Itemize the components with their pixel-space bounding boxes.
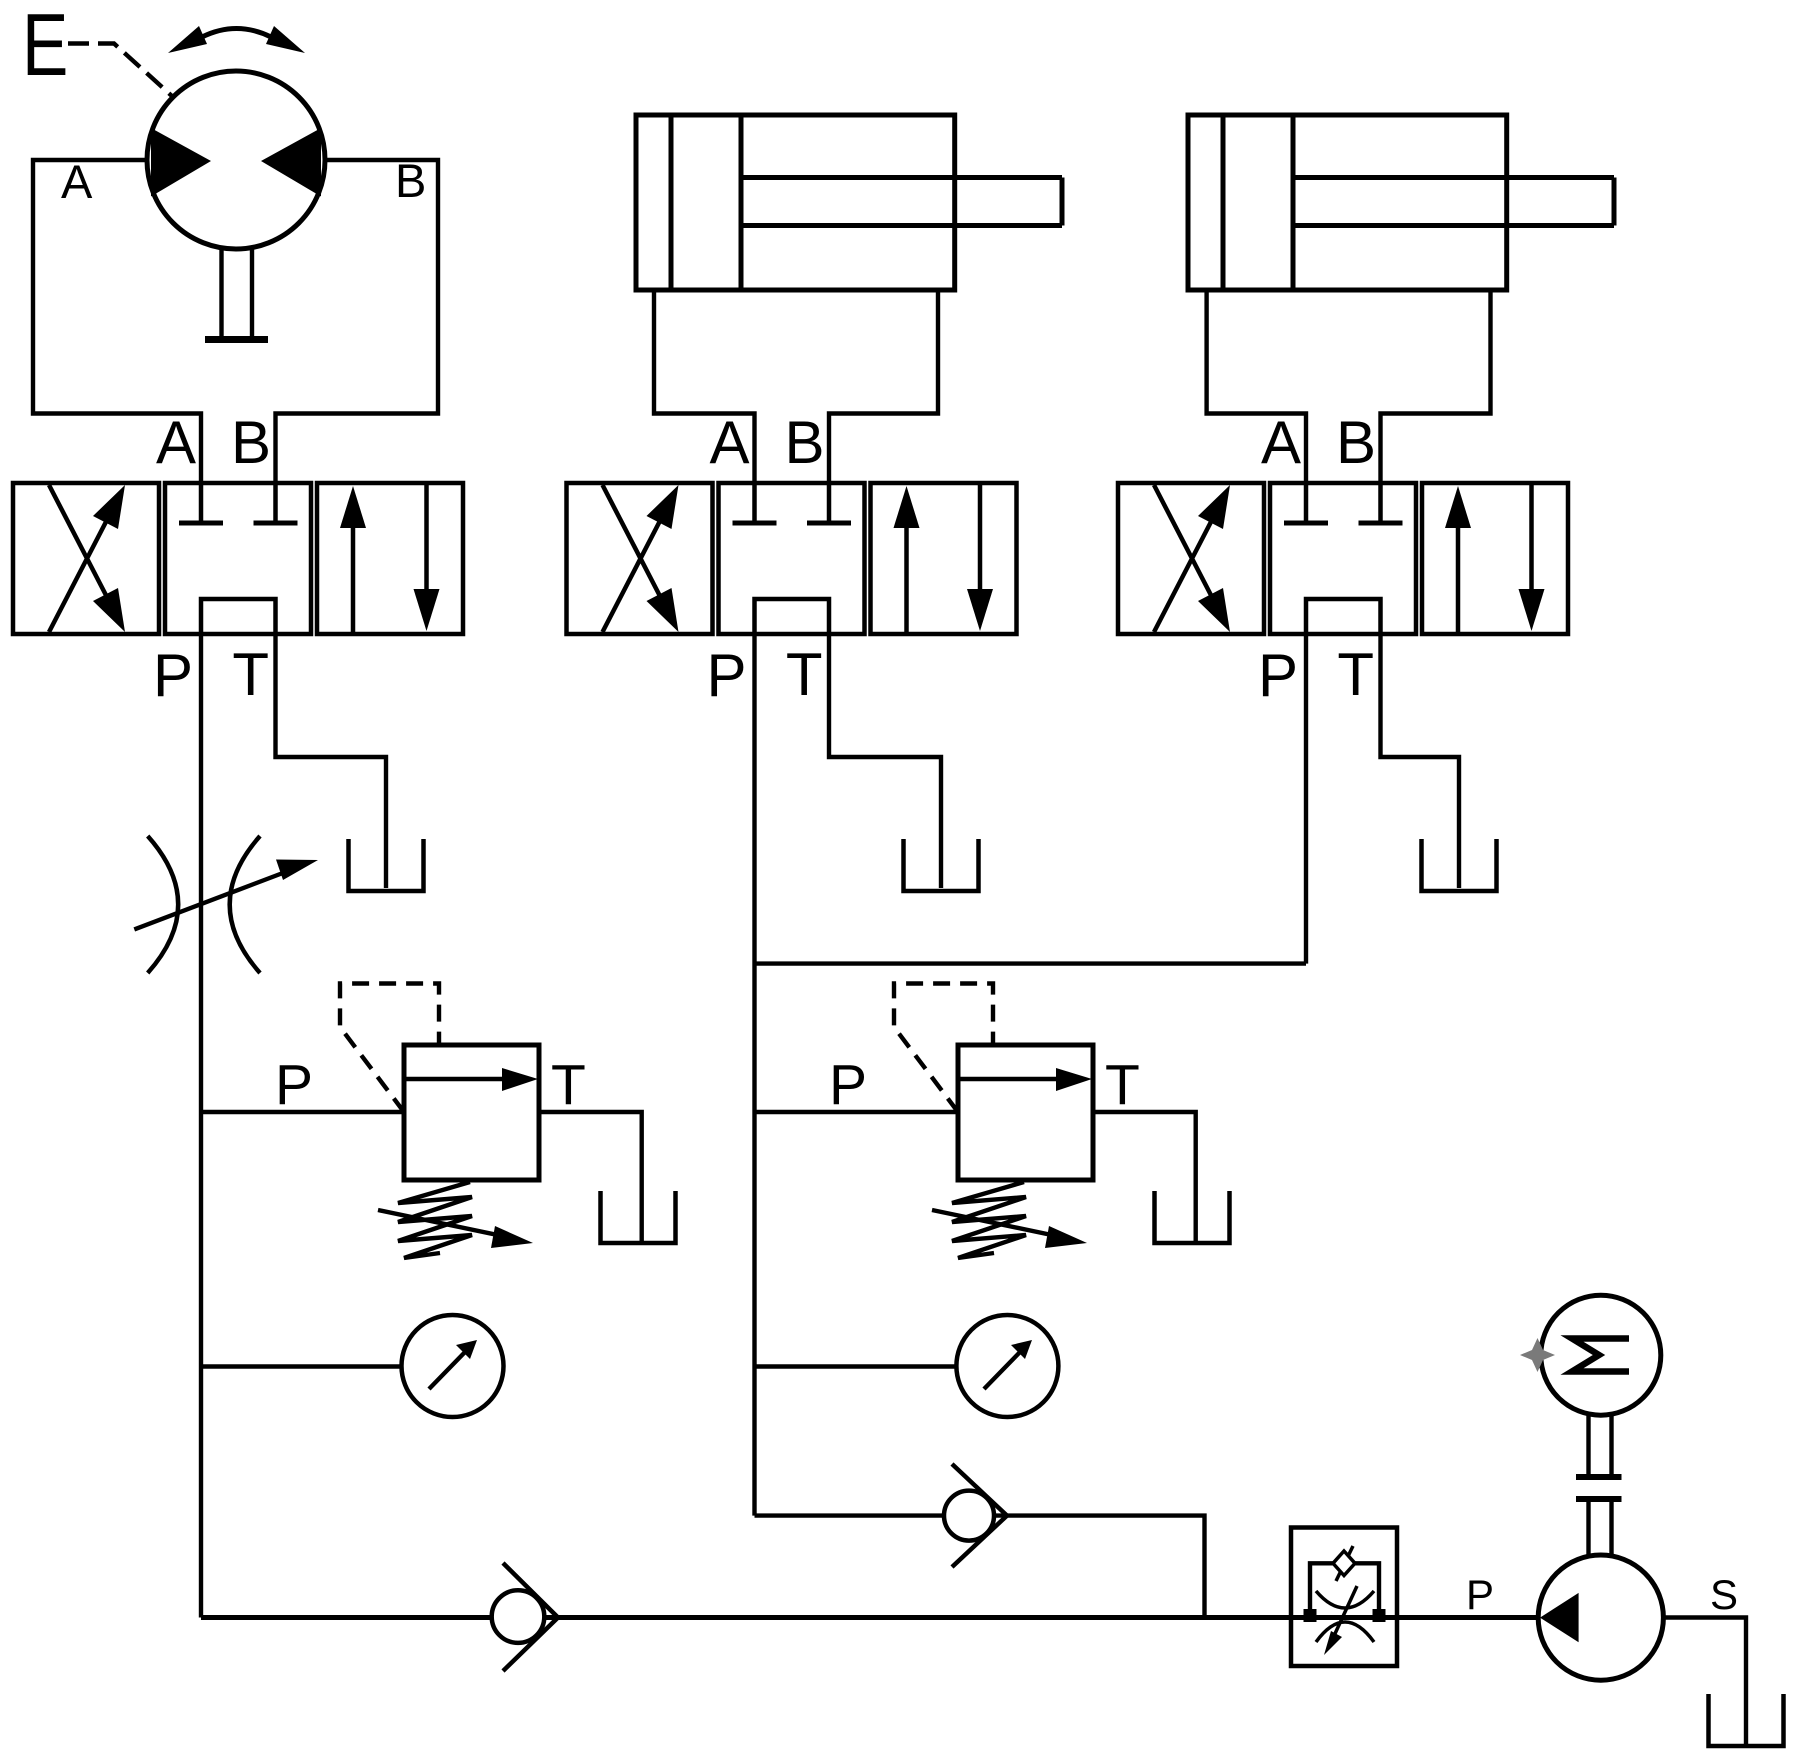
svg-text:S: S — [1710, 1571, 1738, 1618]
svg-text:B: B — [395, 154, 426, 207]
svg-text:B: B — [231, 409, 271, 476]
svg-text:T: T — [232, 641, 269, 708]
svg-text:A: A — [1261, 409, 1301, 476]
svg-text:T: T — [786, 641, 823, 708]
svg-text:P: P — [275, 1053, 313, 1117]
svg-text:T: T — [1105, 1053, 1140, 1117]
svg-text:P: P — [706, 642, 746, 709]
svg-text:T: T — [1337, 641, 1374, 708]
svg-text:A: A — [156, 409, 196, 476]
svg-text:P: P — [1258, 642, 1298, 709]
svg-text:A: A — [709, 409, 749, 476]
svg-text:B: B — [1336, 409, 1376, 476]
svg-text:P: P — [153, 642, 193, 709]
svg-text:P: P — [829, 1053, 867, 1117]
svg-text:T: T — [551, 1053, 586, 1117]
svg-text:B: B — [784, 409, 824, 476]
svg-text:P: P — [1466, 1571, 1494, 1618]
svg-text:A: A — [61, 155, 93, 208]
svg-text:E: E — [22, 0, 68, 94]
